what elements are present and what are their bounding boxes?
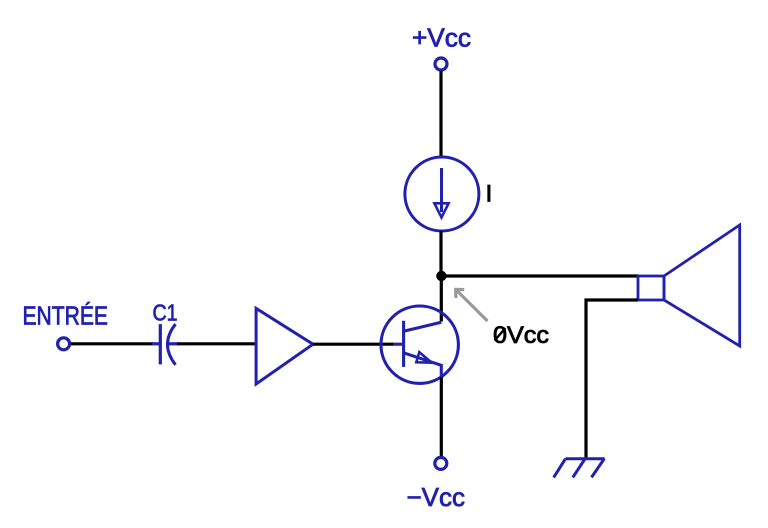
wire node to collector [440,276,443,322]
wire input to C1 [71,342,153,345]
current source I [405,157,479,231]
wire current source to node [439,231,442,277]
speaker cone [664,225,740,346]
svg-text:C1: C1 [153,299,178,325]
svg-text:+Vcc: +Vcc [412,23,471,53]
wire +Vcc to current source [439,71,442,158]
speaker driver square [638,276,664,300]
node junction dot [436,271,446,281]
wire speaker return [586,300,638,458]
svg-text:ENTRÉE: ENTRÉE [23,301,109,331]
wire C1 to amplifier [177,342,257,345]
gray annotation arrow [456,289,488,321]
terminal -Vcc [435,457,447,469]
terminal input [58,338,70,350]
terminal +Vcc [435,58,447,70]
amplifier buffer triangle [256,308,313,384]
wire amplifier to transistor base [313,343,394,346]
svg-text:I: I [486,181,493,208]
ground [554,459,605,478]
svg-text:0Vcc: 0Vcc [493,322,549,349]
wire emitter to -Vcc [440,377,443,457]
transistor Q1 [381,306,458,383]
slash of zero [495,328,506,341]
wire node to speaker [441,274,639,277]
capacitor C1 [152,324,178,365]
svg-text:−Vcc: −Vcc [407,482,466,512]
